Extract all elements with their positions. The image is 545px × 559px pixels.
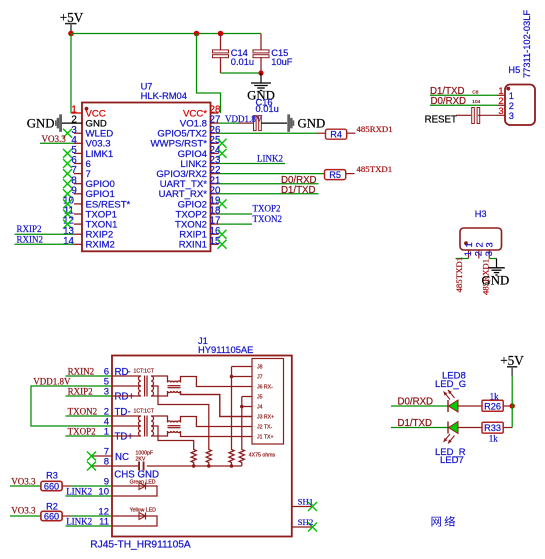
svg-text:TXOP2: TXOP2 — [68, 426, 96, 436]
svg-text:2: 2 — [498, 96, 503, 106]
svg-text:J7: J7 — [257, 374, 263, 380]
svg-text:1CT:1CT: 1CT:1CT — [134, 368, 155, 374]
svg-text:H3: H3 — [475, 209, 487, 219]
svg-text:GND: GND — [298, 116, 326, 130]
svg-text:2: 2 — [474, 251, 484, 256]
svg-text:J6 RX-: J6 RX- — [257, 384, 273, 390]
svg-text:RXIN1: RXIN1 — [179, 240, 207, 251]
svg-text:1k: 1k — [489, 433, 499, 443]
svg-text:R5: R5 — [329, 170, 341, 180]
svg-text:R33: R33 — [484, 423, 501, 433]
svg-text:VDD1.8V: VDD1.8V — [225, 114, 263, 124]
svg-text:660: 660 — [44, 481, 59, 491]
svg-text:TXON2: TXON2 — [253, 214, 283, 224]
svg-text:1: 1 — [498, 86, 503, 96]
svg-text:0.01u: 0.01u — [231, 57, 254, 67]
svg-text:R2: R2 — [46, 502, 58, 512]
svg-text:J2 TX-: J2 TX- — [257, 424, 272, 430]
svg-text:NC: NC — [115, 452, 129, 463]
svg-text:GND: GND — [482, 274, 510, 288]
svg-text:D1/TXD: D1/TXD — [398, 418, 432, 429]
svg-text:RESET: RESET — [425, 115, 457, 126]
svg-text:2KV: 2KV — [136, 457, 146, 463]
svg-text:VDD1.8V: VDD1.8V — [33, 376, 71, 386]
svg-text:R3: R3 — [46, 470, 58, 480]
svg-text:0.01u: 0.01u — [256, 104, 279, 114]
svg-text:LINK2: LINK2 — [66, 517, 92, 527]
svg-text:104: 104 — [472, 99, 480, 105]
svg-text:R26: R26 — [484, 401, 501, 411]
svg-text:3: 3 — [485, 242, 495, 247]
svg-text:J1 TX+: J1 TX+ — [257, 434, 273, 440]
svg-text:+5V: +5V — [60, 10, 84, 25]
svg-text:-: - — [128, 407, 131, 416]
svg-text:LED7: LED7 — [440, 455, 464, 466]
svg-text:J8: J8 — [257, 364, 263, 370]
svg-text:2: 2 — [474, 242, 484, 247]
svg-text:J3 RX+: J3 RX+ — [257, 414, 274, 420]
svg-text:VO3.3: VO3.3 — [11, 505, 36, 515]
svg-text:77311-102-03LF: 77311-102-03LF — [522, 10, 532, 78]
svg-text:485TXD1: 485TXD1 — [357, 164, 393, 174]
svg-text:RXIP2: RXIP2 — [17, 224, 42, 234]
svg-text:RXIP2: RXIP2 — [68, 386, 93, 396]
svg-text:TD+: TD+ — [115, 432, 134, 443]
svg-text:10uF: 10uF — [271, 57, 293, 67]
svg-text:D0/RXD: D0/RXD — [398, 397, 434, 408]
svg-text:HLK-RM04: HLK-RM04 — [141, 90, 187, 101]
svg-text:C8: C8 — [472, 90, 478, 96]
svg-text:3: 3 — [498, 106, 503, 116]
svg-text:LINK2: LINK2 — [66, 486, 92, 496]
svg-text:1000pF: 1000pF — [136, 450, 154, 456]
svg-text:SH1: SH1 — [298, 497, 314, 507]
svg-text:1: 1 — [463, 251, 473, 256]
svg-text:1: 1 — [464, 242, 474, 247]
svg-text:4X75 ohms: 4X75 ohms — [249, 453, 276, 459]
svg-text:VO3.3: VO3.3 — [42, 134, 67, 144]
svg-text:TXOP2: TXOP2 — [253, 204, 281, 214]
svg-text:LED_G: LED_G — [435, 379, 466, 390]
svg-text:GND: GND — [27, 116, 55, 130]
svg-text:RJ45-TH_HR911105A: RJ45-TH_HR911105A — [90, 539, 191, 550]
svg-text:3: 3 — [509, 111, 514, 121]
svg-text:485RXD1: 485RXD1 — [357, 124, 393, 134]
svg-text:Yellow LED: Yellow LED — [130, 508, 157, 514]
svg-text:RD+: RD+ — [115, 392, 135, 403]
svg-text:TXON2: TXON2 — [68, 406, 98, 416]
svg-text:R4: R4 — [330, 130, 342, 140]
svg-text:485TXD1: 485TXD1 — [454, 257, 464, 293]
svg-text:D1/TXD: D1/TXD — [281, 185, 315, 196]
svg-text:J4: J4 — [257, 404, 263, 410]
svg-text:RXIM2: RXIM2 — [86, 240, 115, 251]
svg-text:D0/RXD: D0/RXD — [431, 96, 467, 107]
svg-text:H5: H5 — [508, 65, 520, 75]
svg-text:RXIN2: RXIN2 — [68, 366, 95, 376]
svg-text:J5: J5 — [257, 394, 263, 400]
svg-text:VO3.3: VO3.3 — [11, 476, 36, 486]
svg-text:2: 2 — [509, 101, 514, 111]
svg-text:1CT:1CT: 1CT:1CT — [134, 408, 155, 414]
svg-text:1k: 1k — [490, 391, 500, 401]
svg-text:14: 14 — [63, 236, 74, 247]
svg-text:LINK2: LINK2 — [257, 154, 283, 164]
svg-text:RXIN2: RXIN2 — [17, 234, 44, 244]
svg-text:660: 660 — [44, 511, 59, 521]
svg-text:-: - — [128, 367, 131, 376]
svg-text:HY911105AE: HY911105AE — [198, 344, 253, 355]
svg-text:+5V: +5V — [500, 353, 524, 368]
svg-text:3: 3 — [484, 251, 494, 256]
svg-text:SH2: SH2 — [298, 517, 314, 527]
svg-text:1: 1 — [509, 91, 514, 101]
